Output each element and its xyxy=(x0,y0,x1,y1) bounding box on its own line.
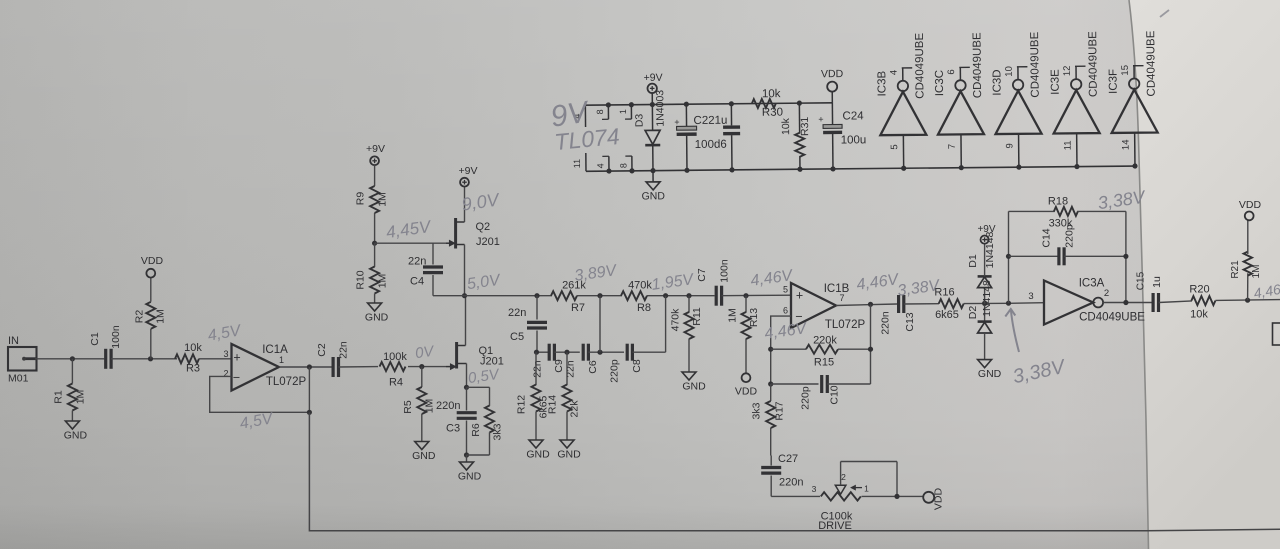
node C5 tap xyxy=(534,293,539,298)
wire IC1A output xyxy=(279,366,333,368)
svg-text:10k: 10k xyxy=(1190,309,1208,321)
svg-text:VDD: VDD xyxy=(1239,199,1262,211)
resistor R5 1M xyxy=(421,367,423,387)
svg-text:4: 4 xyxy=(889,70,900,75)
wire R16 to diode node xyxy=(964,302,1009,304)
wire R3 to op-amp pin3 xyxy=(199,358,232,360)
svg-text:D3: D3 xyxy=(633,114,645,128)
node between R7 and R8 xyxy=(597,293,602,298)
ground below R11 xyxy=(682,372,696,380)
svg-text:C8: C8 xyxy=(631,359,643,373)
svg-text:R11: R11 xyxy=(691,307,703,326)
VDD terminal above R2 xyxy=(146,269,155,278)
paper fold crease line xyxy=(1129,0,1149,549)
svg-text:+: + xyxy=(796,289,803,303)
wire top supply rail xyxy=(585,103,832,105)
wire Q1 drain to 5V rail xyxy=(465,296,467,346)
svg-text:8: 8 xyxy=(595,109,605,114)
resistor R10 1M xyxy=(374,243,376,267)
resistor R2 1M xyxy=(150,329,152,359)
resistor R31 10k xyxy=(797,101,802,106)
svg-text:1: 1 xyxy=(279,355,284,365)
svg-text:3: 3 xyxy=(812,484,817,494)
svg-text:100n: 100n xyxy=(110,325,122,349)
resistor R6 3k3 xyxy=(467,386,490,388)
svg-text:14: 14 xyxy=(1121,139,1132,150)
svg-text:5: 5 xyxy=(889,144,900,149)
svg-text:+9V: +9V xyxy=(366,143,385,155)
svg-text:2: 2 xyxy=(841,472,846,482)
IC power pin stub 11 (bottom left) xyxy=(585,153,587,171)
svg-text:220n: 220n xyxy=(779,477,803,489)
VDD terminal right of potentiometer xyxy=(923,492,934,503)
capacitor C4 22n xyxy=(432,243,434,264)
VDD terminal below R13 xyxy=(742,373,751,382)
svg-text:11: 11 xyxy=(1063,140,1074,150)
wire C7 to IC1B pin5 xyxy=(722,294,791,297)
svg-text:DRIVE: DRIVE xyxy=(818,520,852,532)
svg-text:D2: D2 xyxy=(967,306,979,320)
potentiometer C100k DRIVE xyxy=(771,495,820,497)
svg-text:3k3: 3k3 xyxy=(751,402,763,419)
wire IC3A feedback loop right xyxy=(1125,211,1127,302)
svg-text:R1: R1 xyxy=(53,390,65,404)
svg-text:6: 6 xyxy=(783,306,788,316)
svg-text:R10: R10 xyxy=(355,270,367,289)
svg-text:C4: C4 xyxy=(410,276,424,288)
resistor R30 10k xyxy=(752,99,776,108)
svg-text:GND: GND xyxy=(978,368,1002,380)
svg-text:TL072P: TL072P xyxy=(266,376,307,388)
capacitor C9 22n xyxy=(548,344,551,361)
svg-text:C3: C3 xyxy=(446,423,460,435)
svg-text:GND: GND xyxy=(557,449,581,461)
svg-text:1M: 1M xyxy=(377,192,389,207)
svg-text:GND: GND xyxy=(526,449,550,461)
IC power pin stub 4 (bottom) xyxy=(608,156,610,171)
wire C1 to R3 xyxy=(111,358,177,360)
svg-text:+: + xyxy=(818,114,823,124)
svg-text:1: 1 xyxy=(864,484,869,494)
svg-text:100n: 100n xyxy=(719,259,731,283)
wire bottom supply rail xyxy=(586,166,1135,171)
svg-text:C1: C1 xyxy=(89,332,101,346)
svg-text:CD4049UBE: CD4049UBE xyxy=(1079,312,1145,324)
wire R20 to output node xyxy=(1215,299,1280,302)
svg-text:7: 7 xyxy=(947,144,958,149)
svg-text:R5: R5 xyxy=(402,400,414,414)
node Q1 gate / R5 xyxy=(419,364,424,369)
svg-text:IC3E: IC3E xyxy=(1050,69,1062,95)
node R8/C8 junction xyxy=(663,293,668,298)
svg-text:CD4049UBE: CD4049UBE xyxy=(1029,31,1042,97)
ground below R14 xyxy=(560,440,574,448)
node C14 left xyxy=(1006,254,1011,259)
svg-text:+: + xyxy=(233,351,240,365)
svg-text:+: + xyxy=(674,117,679,127)
wire lower cap chain rail xyxy=(536,351,549,353)
VDD terminal above R21 xyxy=(1245,212,1254,221)
node R21 tap xyxy=(1245,298,1250,303)
wire +9V to top rail xyxy=(651,93,653,104)
svg-text:D1: D1 xyxy=(967,254,979,268)
svg-text:220n: 220n xyxy=(880,311,892,335)
svg-text:22n: 22n xyxy=(532,360,544,378)
svg-text:10: 10 xyxy=(1004,66,1015,77)
svg-text:12: 12 xyxy=(1062,66,1073,77)
node feedback lower left xyxy=(768,381,773,386)
svg-text:R21: R21 xyxy=(1230,260,1241,279)
svg-text:R31: R31 xyxy=(799,117,811,137)
node feedback / bottom wire tee xyxy=(307,410,312,415)
svg-text:+9V: +9V xyxy=(977,224,995,235)
wire C8 rail up to main rail xyxy=(665,296,667,353)
svg-text:GND: GND xyxy=(642,190,666,202)
svg-text:220p: 220p xyxy=(800,386,812,410)
node R13 tap xyxy=(743,293,748,298)
ground below D3 xyxy=(652,171,654,182)
svg-text:GND: GND xyxy=(412,450,436,462)
svg-text:R20: R20 xyxy=(1189,284,1209,296)
IC power pin stub 1 (top) xyxy=(630,105,632,119)
node C3/R6 bottom junction xyxy=(464,452,469,457)
resistor R17 3k3 xyxy=(770,384,772,401)
electrolytic capacitor C22 1u xyxy=(685,104,687,126)
svg-text:IC3C: IC3C xyxy=(934,70,946,96)
wire IC1B output xyxy=(836,304,897,306)
wire IC1B pin6 to feedback xyxy=(771,316,791,384)
svg-text:11: 11 xyxy=(572,159,582,168)
svg-text:CD4049UBE: CD4049UBE xyxy=(914,32,927,98)
node input/R1 junction xyxy=(70,356,75,361)
ground below R12 xyxy=(529,440,543,448)
svg-text:4: 4 xyxy=(595,163,605,168)
ground below R10 xyxy=(368,303,382,311)
ground below C3 xyxy=(466,455,468,462)
svg-text:10k: 10k xyxy=(184,342,202,354)
connector M01 IN jack xyxy=(8,347,37,371)
svg-text:5: 5 xyxy=(783,285,788,295)
svg-text:VDD: VDD xyxy=(821,68,844,80)
wire input to C1 xyxy=(35,358,104,360)
svg-text:IC3B: IC3B xyxy=(876,70,888,96)
svg-text:GND: GND xyxy=(64,430,88,442)
inverter IC3F CD4049UBE xyxy=(1107,30,1158,169)
svg-text:22n: 22n xyxy=(338,341,350,359)
svg-text:J201: J201 xyxy=(480,356,504,368)
svg-text:−: − xyxy=(233,371,240,385)
inverter IC3C CD4049UBE xyxy=(933,32,984,171)
capacitor C1 100n xyxy=(104,349,107,369)
IC power pin stub 8 (bottom) xyxy=(631,156,633,171)
node diode clamp xyxy=(982,301,987,306)
resistor R12 6k65 xyxy=(535,352,537,385)
svg-text:R4: R4 xyxy=(389,377,403,389)
electrolytic capacitor C24 100u xyxy=(831,103,833,125)
node Q2 source on rail xyxy=(462,293,467,298)
ground below R1 xyxy=(65,421,79,429)
ground below R5 xyxy=(415,442,429,450)
resistor R8 470k xyxy=(621,291,647,300)
svg-text:1N4003: 1N4003 xyxy=(654,90,666,127)
node C14 right xyxy=(1123,254,1128,259)
svg-text:R14: R14 xyxy=(547,395,559,414)
handwritten arrow to IC3A input xyxy=(1011,309,1019,352)
diode D3 1N4003 xyxy=(651,105,653,131)
svg-text:IC1B: IC1B xyxy=(824,283,850,295)
svg-text:C7: C7 xyxy=(696,268,708,282)
svg-text:+9V: +9V xyxy=(459,165,478,177)
node C6/C8 junction to upper rail xyxy=(597,350,602,355)
resistor R3 10k xyxy=(175,354,199,363)
svg-text:R17: R17 xyxy=(774,401,786,420)
IC power pin stub 4 (top left) xyxy=(584,105,586,127)
wire Q2 drain to +9V xyxy=(464,187,466,223)
inverter IC3E CD4049UBE xyxy=(1049,31,1100,170)
svg-text:6k65: 6k65 xyxy=(935,309,959,321)
transistor Q2 J201 JFET xyxy=(446,242,454,244)
svg-text:TL072P: TL072P xyxy=(825,319,866,331)
wire 5V rail xyxy=(433,295,552,297)
capacitor C7 100n xyxy=(715,286,718,306)
transistor Q1 J201 JFET xyxy=(446,366,455,368)
svg-text:IC1A: IC1A xyxy=(262,344,288,356)
wire R7 to R8 xyxy=(577,295,622,297)
svg-text:1M: 1M xyxy=(155,309,167,324)
svg-text:1: 1 xyxy=(618,109,628,114)
svg-text:1N4148: 1N4148 xyxy=(981,280,993,317)
ground below D2 xyxy=(978,360,992,368)
svg-text:C15: C15 xyxy=(1136,271,1147,290)
resistor R13 1M xyxy=(745,296,747,313)
svg-text:22n: 22n xyxy=(408,256,426,268)
svg-text:10k: 10k xyxy=(762,88,781,100)
node IC3A input feedback tap xyxy=(1006,301,1011,306)
resistor R7 261k xyxy=(551,291,577,300)
resistor R15 220k xyxy=(771,348,806,350)
+9V terminal above D1 xyxy=(981,236,989,244)
svg-text:220p: 220p xyxy=(609,359,621,383)
svg-text:9: 9 xyxy=(1004,143,1015,148)
svg-text:C14: C14 xyxy=(1040,228,1052,247)
svg-text:VDD: VDD xyxy=(735,386,758,398)
diode D2 1N4148 xyxy=(984,303,986,321)
svg-text:C24: C24 xyxy=(842,110,864,122)
svg-text:R18: R18 xyxy=(1048,196,1068,208)
svg-text:100u: 100u xyxy=(841,134,867,146)
capacitor C13 220n xyxy=(897,295,900,313)
resistor R16 6k65 xyxy=(939,299,964,308)
svg-text:R16: R16 xyxy=(934,287,954,299)
node lower rail left end xyxy=(534,350,539,355)
svg-text:3: 3 xyxy=(1028,291,1033,302)
svg-text:220n: 220n xyxy=(436,400,460,412)
wire diode node to IC3A input xyxy=(1009,302,1045,305)
svg-text:1u: 1u xyxy=(1151,276,1163,288)
svg-text:IN: IN xyxy=(8,335,19,347)
svg-text:M01: M01 xyxy=(8,373,29,385)
svg-text:Q2: Q2 xyxy=(476,221,491,233)
IC power pin stub 8 (top) xyxy=(607,105,609,119)
wire output down to feedback xyxy=(870,304,872,384)
resistor R21 1M xyxy=(1247,273,1249,300)
svg-text:3k3: 3k3 xyxy=(492,423,504,440)
svg-text:CD4049UBE: CD4049UBE xyxy=(1087,31,1100,97)
svg-text:2: 2 xyxy=(1104,288,1109,299)
diode D1 1N4148 xyxy=(984,288,986,304)
svg-text:VDD: VDD xyxy=(933,487,945,510)
svg-text:GND: GND xyxy=(458,471,482,483)
svg-text:C221u: C221u xyxy=(693,115,727,127)
wire Q1 source down xyxy=(466,364,468,388)
svg-text:IC3F: IC3F xyxy=(1108,69,1120,94)
svg-text:470k: 470k xyxy=(628,280,652,292)
svg-text:GND: GND xyxy=(365,312,389,324)
svg-text:3: 3 xyxy=(223,349,228,359)
svg-text:1M: 1M xyxy=(1251,265,1262,279)
wire C15 to R20 xyxy=(1159,301,1192,303)
svg-text:R3: R3 xyxy=(186,363,200,375)
component box at right edge xyxy=(1273,323,1280,345)
svg-text:10k: 10k xyxy=(780,117,792,135)
svg-text:220p: 220p xyxy=(1064,224,1076,248)
svg-text:8: 8 xyxy=(618,163,628,168)
node R9/R10 divider xyxy=(372,241,377,246)
svg-text:1N4148: 1N4148 xyxy=(984,231,996,268)
node Q1 source xyxy=(464,385,469,390)
svg-text:R9: R9 xyxy=(355,192,367,206)
svg-text:J201: J201 xyxy=(476,236,500,248)
wire C2 to R4 xyxy=(339,366,379,368)
capacitor C14 220p xyxy=(1009,255,1059,257)
node IC1A output feedback tap xyxy=(307,364,312,369)
capacitor C5 22n xyxy=(536,296,538,320)
svg-text:C6: C6 xyxy=(587,360,599,374)
resistor R18 330k xyxy=(1009,210,1055,212)
capacitor C3 220n xyxy=(466,387,468,410)
svg-text:100d6: 100d6 xyxy=(695,139,727,151)
svg-text:R15: R15 xyxy=(814,357,834,369)
svg-text:C13: C13 xyxy=(904,312,916,331)
svg-text:R30: R30 xyxy=(762,107,783,119)
capacitor C10 220p xyxy=(771,383,819,385)
svg-text:IC3A: IC3A xyxy=(1079,278,1105,290)
resistor R14 22k xyxy=(566,352,568,385)
svg-text:22n: 22n xyxy=(508,307,526,319)
node IC3A output xyxy=(1123,300,1128,305)
wire IC1A feedback loop xyxy=(210,367,310,412)
svg-text:GND: GND xyxy=(682,381,706,393)
capacitor C6 22n xyxy=(582,344,585,361)
wire Q2 source to 5V rail xyxy=(464,245,466,296)
wire R4 to Q1 gate node xyxy=(408,366,446,368)
capacitor C2 22n xyxy=(332,357,335,377)
wire R8 to C7 xyxy=(647,295,715,297)
pencil scratch mark top right xyxy=(1160,10,1169,17)
resistor R1 1M xyxy=(71,359,73,384)
resistor R4 100k xyxy=(380,362,406,371)
svg-text:R8: R8 xyxy=(637,302,651,314)
wire IC3A feedback loop left xyxy=(1008,211,1010,303)
capacitor C23 xyxy=(730,104,732,126)
svg-text:IC3D: IC3D xyxy=(991,69,1003,95)
svg-text:100k: 100k xyxy=(383,351,407,363)
svg-text:1M: 1M xyxy=(75,390,87,405)
inverter IC3A CD4049UBE xyxy=(1044,281,1093,325)
svg-text:C5: C5 xyxy=(510,331,524,343)
svg-text:VDD: VDD xyxy=(141,255,164,267)
svg-text:1M: 1M xyxy=(727,308,739,323)
svg-text:C10: C10 xyxy=(829,385,841,404)
svg-text:+9V: +9V xyxy=(644,72,663,84)
svg-text:R12: R12 xyxy=(516,395,528,414)
wire IC3A output xyxy=(1103,302,1153,304)
node IC1B output xyxy=(868,302,873,307)
capacitor C15 1u xyxy=(1151,293,1154,312)
svg-text:R6: R6 xyxy=(470,423,482,437)
resistor R20 10k xyxy=(1191,296,1215,305)
svg-text:CD4049UBE: CD4049UBE xyxy=(1145,30,1158,96)
svg-text:1M: 1M xyxy=(424,399,436,414)
right paper sheet beyond fold xyxy=(1129,0,1280,549)
op-amp IC1B TL072P xyxy=(791,283,836,328)
svg-text:R7: R7 xyxy=(571,302,585,314)
node feedback upper left xyxy=(768,347,773,352)
svg-text:C27: C27 xyxy=(778,453,798,465)
svg-text:15: 15 xyxy=(1120,65,1131,76)
svg-text:CD4049UBE: CD4049UBE xyxy=(971,32,984,98)
resistor R9 1M xyxy=(374,165,376,186)
svg-text:220k: 220k xyxy=(813,335,837,347)
capacitor C8 220p xyxy=(626,344,629,361)
capacitor C27 220n xyxy=(770,456,772,466)
svg-text:C2: C2 xyxy=(316,343,328,357)
op-amp IC1A TL072P xyxy=(232,344,279,391)
svg-text:6: 6 xyxy=(946,69,957,74)
wire divider to Q2 gate xyxy=(375,242,446,244)
svg-text:R13: R13 xyxy=(748,308,760,327)
node R14 tap xyxy=(564,350,569,355)
svg-text:22k: 22k xyxy=(569,400,581,418)
svg-text:470k: 470k xyxy=(670,308,682,332)
inverter IC3B CD4049UBE xyxy=(876,32,927,171)
resistor R11 470k xyxy=(686,293,691,298)
svg-text:7: 7 xyxy=(839,293,844,303)
inverter IC3D CD4049UBE xyxy=(991,31,1042,170)
svg-text:C9: C9 xyxy=(553,359,565,373)
svg-text:R2: R2 xyxy=(134,310,146,324)
wire long bottom return xyxy=(309,412,1146,531)
svg-text:1M: 1M xyxy=(377,274,389,289)
node R2 junction xyxy=(148,356,153,361)
